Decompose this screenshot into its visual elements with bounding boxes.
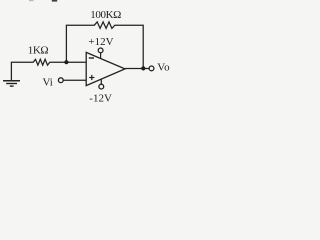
ground <box>3 81 20 86</box>
svg-text:1KΩ: 1KΩ <box>28 45 49 57</box>
page background <box>0 0 179 110</box>
terminal Vo (open circle) <box>149 66 154 71</box>
wire: input net from ground up and right to inverting input, with R1 zigzag <box>11 59 86 80</box>
svg-text:-12V: -12V <box>89 92 112 104</box>
wire: output from op-amp apex to Vo terminal <box>125 68 149 70</box>
svg-text:Vo: Vo <box>157 62 170 74</box>
node B: junction dot on output <box>141 66 145 70</box>
wire: Vi terminal to non-inverting input <box>63 79 86 81</box>
op-amp non-inverting input marker (plus) <box>89 75 94 80</box>
artifact: faint gray mark at top edge <box>29 0 34 1</box>
artifact: cropped text remnant at top edge <box>52 0 57 2</box>
negative supply pin: stem and open circle <box>100 79 102 84</box>
svg-text:100KΩ: 100KΩ <box>90 9 121 21</box>
svg-text:+12V: +12V <box>88 36 113 48</box>
positive supply pin: stem and open circle <box>100 53 102 59</box>
wire: feedback net, up from node A, across top with R2 zigzag, down to node B <box>66 22 143 69</box>
svg-text:Vi: Vi <box>43 76 53 88</box>
op-amp U1 triangle <box>86 52 125 85</box>
node A: junction dot at inverting input <box>64 60 68 64</box>
terminal Vi (open circle) <box>58 78 63 83</box>
op-amp inverting input marker (minus) <box>89 57 94 59</box>
